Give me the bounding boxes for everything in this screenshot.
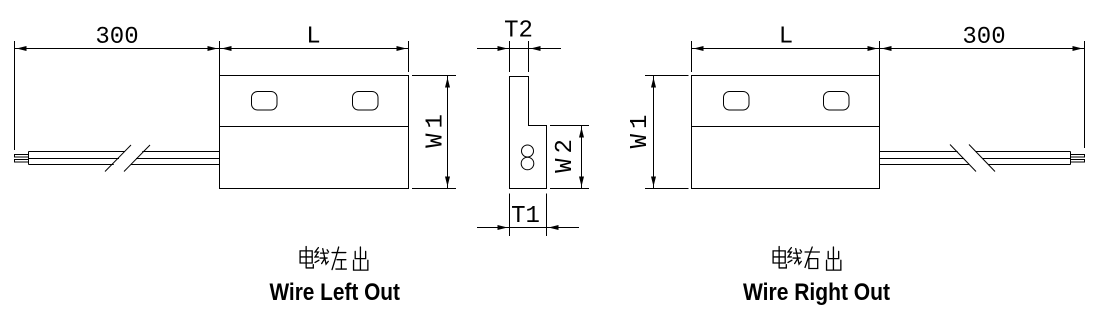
housing left divider line [220, 126, 409, 128]
wire right break lines [950, 145, 995, 172]
svg-text:L: L [779, 24, 793, 51]
svg-text:L: L [306, 24, 320, 51]
dimension W1 left [412, 76, 456, 189]
wire right tip 1 [1071, 155, 1085, 158]
svg-text:T1: T1 [511, 203, 540, 230]
hole left 1 [252, 92, 278, 111]
dimension W2 [550, 126, 589, 189]
dimension L right [692, 41, 880, 76]
svg-text:Wire Right Out: Wire Right Out [743, 279, 890, 306]
dimension L left [220, 41, 409, 76]
svg-text:W1: W1 [423, 109, 450, 148]
wire left break lines [105, 145, 150, 172]
svg-text:T2: T2 [504, 18, 533, 45]
dimension T1 [477, 194, 579, 237]
cross-section hole circle bottom [521, 157, 534, 170]
svg-text:W2: W2 [552, 134, 579, 173]
svg-text:300: 300 [95, 24, 138, 51]
cross-section hole circle top [522, 145, 534, 157]
wire left break gap [106, 144, 149, 173]
hole right 1 [724, 92, 750, 111]
housing left body [220, 76, 409, 189]
svg-text:300: 300 [962, 24, 1005, 51]
cross-section L-shape body [510, 77, 547, 189]
svg-text:W1: W1 [627, 110, 654, 149]
wire right break gap [951, 144, 996, 173]
caption chinese dian xian zuo chu [300, 247, 368, 271]
housing right divider line [692, 126, 880, 128]
wire left tip 1 [15, 155, 29, 158]
svg-text:Wire Left Out: Wire Left Out [269, 279, 400, 306]
dimension W1 right [645, 76, 689, 189]
dimension 300 right [880, 41, 1085, 148]
housing right body [692, 76, 880, 189]
caption chinese dian xian you chu [773, 247, 841, 271]
hole right 2 [824, 92, 850, 111]
wire left cable [29, 152, 220, 165]
wire left tip 2 [15, 160, 29, 163]
wire right cable [880, 152, 1071, 165]
dimension T2 [477, 41, 561, 72]
hole left 2 [353, 92, 379, 111]
wire right tip 2 [1071, 160, 1085, 163]
dimension 300 left [15, 41, 220, 150]
